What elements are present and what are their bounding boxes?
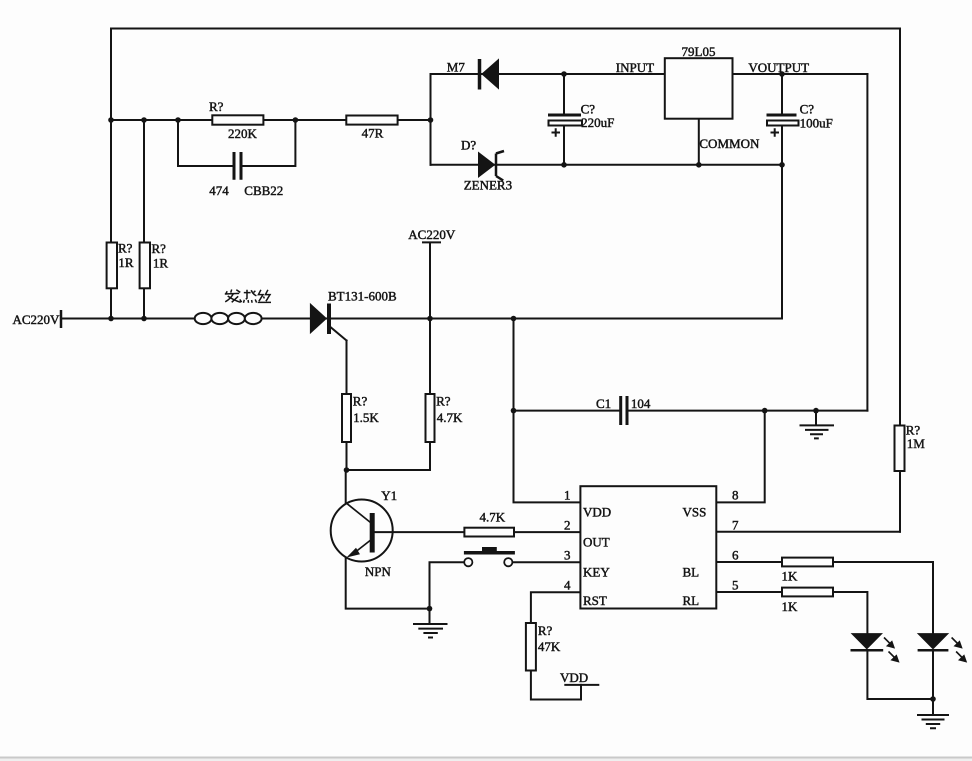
wire pin2 row: [375, 531, 581, 533]
svg-text:R?: R?: [353, 394, 368, 409]
transistor Y1 circle: [331, 500, 393, 562]
junction zener row / C100: [779, 162, 785, 168]
svg-text:RL: RL: [683, 593, 700, 608]
heater coil 发热丝: [195, 313, 262, 324]
ground at C1 row: [800, 411, 835, 439]
svg-text:8: 8: [732, 488, 739, 503]
svg-text:COMMON: COMMON: [699, 136, 760, 151]
wire collector link row: [347, 469, 431, 471]
resistor R? 47K: [526, 623, 536, 671]
svg-text:1: 1: [564, 488, 571, 503]
wire pin4 link: [531, 592, 581, 623]
wire main upper row: [111, 119, 431, 121]
junction zener row / COMMON: [696, 162, 702, 168]
svg-text:C1: C1: [596, 396, 611, 411]
resistor R? 220K: [212, 115, 263, 124]
junction emitter ground: [427, 606, 433, 612]
wire outer right rail: [899, 29, 901, 532]
wire zener row: [431, 164, 783, 166]
junction M7 row / C220: [561, 71, 567, 77]
resistor 1K lower: [782, 588, 833, 597]
junction RC left: [175, 117, 181, 123]
diode M7: [480, 59, 499, 90]
junction 47R end: [428, 117, 434, 123]
capacitor 474 CBB22: [234, 152, 241, 180]
wire triac gate: [331, 328, 347, 341]
wire LED2 bottom: [932, 651, 934, 699]
transistor Y1 emitter lead: [354, 539, 373, 554]
resistor R? 1R right: [140, 243, 150, 289]
LED D1: [851, 634, 884, 651]
svg-text:R?: R?: [436, 394, 451, 409]
ground under emitter: [413, 609, 448, 638]
LED D1 arrows: [884, 638, 898, 662]
svg-text:1.5K: 1.5K: [353, 410, 379, 425]
junction AC row / second column: [141, 316, 147, 322]
wire C100 column: [781, 74, 783, 319]
svg-text:BT131-600B: BT131-600B: [328, 288, 397, 303]
junction LED ground: [930, 696, 936, 702]
transistor Y1 base bar: [370, 513, 375, 553]
junction AC row / VDD column: [511, 316, 517, 322]
resistor 1K upper: [782, 558, 833, 567]
wire inner right rail: [866, 74, 868, 411]
terminal tick AC220V: [60, 310, 63, 328]
wire 1.5K column: [346, 341, 348, 471]
wire pin7 link: [717, 531, 900, 533]
svg-text:4.7K: 4.7K: [480, 510, 506, 525]
regulator 79L05: [665, 58, 733, 118]
power bar VDD: [564, 684, 599, 686]
resistor R? 1.5K: [342, 394, 351, 442]
wire C1 row: [514, 410, 868, 412]
junction left rail / upper row: [108, 117, 114, 123]
junction AC row / AC220V stem: [427, 316, 433, 322]
ground bottom right: [917, 699, 949, 728]
wire top rail: [111, 28, 900, 30]
resistor 4.7K horizontal: [464, 528, 514, 537]
svg-text:D?: D?: [461, 137, 476, 152]
svg-text:1R: 1R: [118, 255, 133, 270]
junction VOUTPUT / C100: [779, 71, 785, 77]
svg-text:4: 4: [564, 578, 571, 593]
resistor R? 4.7K vertical: [426, 394, 435, 442]
svg-text:VOUTPUT: VOUTPUT: [748, 60, 809, 75]
bottom divider line: [0, 757, 972, 759]
junction collector link: [344, 467, 350, 473]
wire collector column: [345, 470, 347, 503]
capacitor C? 100uF: [767, 114, 799, 137]
svg-text:ZENER3: ZENER3: [464, 177, 512, 192]
transistor Y1 emitter arrow: [347, 548, 361, 558]
svg-text:KEY: KEY: [583, 565, 610, 580]
svg-text:R?: R?: [118, 240, 133, 255]
wire VDD-pin1 column: [514, 319, 582, 503]
wire emitter column: [346, 558, 430, 608]
resistor R? 1M: [895, 426, 905, 472]
wire pin8 link: [717, 411, 765, 503]
junction C1 row / pin8: [762, 408, 768, 414]
svg-text:1K: 1K: [782, 599, 799, 614]
svg-text:R?: R?: [152, 241, 167, 256]
svg-text:C?: C?: [800, 102, 815, 117]
svg-text:47K: 47K: [538, 639, 561, 654]
svg-text:1K: 1K: [782, 569, 799, 584]
svg-text:VDD: VDD: [560, 670, 588, 685]
svg-text:1M: 1M: [907, 436, 926, 451]
svg-text:RST: RST: [583, 593, 607, 608]
pushbutton bar: [464, 551, 515, 555]
svg-text:220K: 220K: [228, 126, 258, 141]
svg-text:AC220V: AC220V: [13, 312, 61, 327]
svg-text:R?: R?: [209, 99, 224, 114]
svg-text:VSS: VSS: [683, 505, 707, 520]
svg-text:47R: 47R: [362, 126, 384, 141]
pushbutton contact right: [504, 558, 512, 566]
svg-text:Y1: Y1: [381, 488, 397, 503]
svg-text:AC220V: AC220V: [408, 227, 456, 242]
resistor 47R: [346, 116, 397, 125]
junction C1 row left: [511, 408, 517, 414]
wire pin6 row to LED2: [717, 562, 933, 634]
svg-text:BL: BL: [683, 565, 700, 580]
wire switch left link: [430, 562, 465, 608]
junction zener row / C220: [561, 162, 567, 168]
capacitor C? 220uF: [548, 114, 582, 137]
wire RC parallel branch: [178, 120, 295, 166]
svg-text:104: 104: [631, 396, 651, 411]
svg-text:6: 6: [732, 548, 739, 563]
wire C220 column: [563, 74, 565, 165]
svg-text:2: 2: [564, 518, 571, 533]
svg-text:100uF: 100uF: [800, 116, 833, 131]
pushbutton nub: [482, 547, 497, 551]
svg-text:M7: M7: [447, 60, 466, 75]
wire LED1 bottom link: [867, 651, 933, 699]
capacitor C1 104: [621, 396, 627, 425]
svg-text:5: 5: [732, 578, 739, 593]
wire mid vertical at 47R end: [430, 74, 432, 165]
LED D2: [918, 634, 949, 651]
junction second column / upper row: [141, 117, 147, 123]
junction RC right: [293, 117, 299, 123]
svg-text:VDD: VDD: [583, 505, 611, 520]
junction C1 row / ground: [813, 408, 819, 414]
wire pin3 row: [512, 561, 581, 563]
wire second left column: [143, 120, 145, 319]
wire 47K bottom to VDD bar: [531, 671, 581, 700]
pushbutton contact left: [464, 558, 472, 566]
LED D2 arrows: [952, 638, 966, 662]
triac BT131-600B: [310, 304, 329, 335]
svg-text:INPUT: INPUT: [616, 60, 654, 75]
zener diode D?: [479, 151, 505, 181]
wire M7 row: [431, 73, 665, 75]
svg-text:220uF: 220uF: [581, 115, 614, 130]
wire VOUTPUT row: [733, 73, 868, 75]
svg-text:1R: 1R: [153, 255, 169, 270]
label 发热丝 (drawn strokes): [225, 290, 271, 303]
svg-text:3: 3: [564, 548, 571, 563]
wire AC mains row: [61, 318, 782, 320]
svg-text:CBB22: CBB22: [244, 183, 283, 198]
svg-text:NPN: NPN: [365, 564, 392, 579]
power bar AC220V top: [422, 242, 441, 318]
wire pin5 row to LED1: [717, 592, 867, 634]
resistor R? 1R left: [107, 243, 117, 289]
wire left rail: [110, 29, 112, 319]
svg-text:474: 474: [209, 183, 229, 198]
svg-text:4.7K: 4.7K: [437, 410, 463, 425]
svg-text:R?: R?: [538, 623, 553, 638]
svg-text:OUT: OUT: [583, 535, 610, 550]
IC U1 box: [580, 486, 716, 608]
wire 4.7K column: [429, 319, 431, 471]
transistor Y1 collector lead: [346, 503, 371, 523]
svg-text:79L05: 79L05: [682, 44, 716, 59]
wire COMMON stem: [698, 119, 700, 165]
svg-text:7: 7: [732, 518, 739, 533]
svg-text:C?: C?: [581, 101, 596, 116]
junction AC row / left rail: [108, 316, 114, 322]
